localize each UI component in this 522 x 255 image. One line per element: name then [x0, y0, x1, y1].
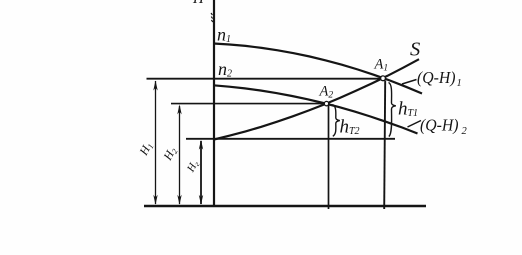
- H2 up arrow: [177, 104, 181, 114]
- brace hT2: [333, 105, 340, 137]
- axis tick specks: [211, 13, 213, 22]
- H1 up arrow: [153, 81, 157, 91]
- axis H (ordinate): [213, 0, 215, 207]
- svg-text:(Q-H): (Q-H): [420, 116, 459, 135]
- extension line H1 level (through A1): [147, 78, 382, 80]
- leader to (Q-H)1: [402, 80, 417, 85]
- brace hT1: [389, 83, 396, 137]
- pump curve n2 / (Q-H)2: [214, 85, 418, 133]
- dimension line H1: [155, 81, 157, 204]
- system curve S: [214, 59, 419, 139]
- arrowheads (dimension arrows): [153, 81, 203, 205]
- point A1: [381, 76, 386, 81]
- leader to (Q-H)2: [408, 121, 422, 128]
- dropline from A1: [384, 81, 385, 210]
- dimension line H2: [179, 106, 181, 204]
- svg-text:S: S: [410, 38, 420, 60]
- dimension line Hr: [200, 141, 202, 204]
- dropline from A2: [328, 106, 330, 210]
- pump curve n1 / (Q-H)1: [214, 44, 423, 94]
- svg-text:1: 1: [457, 78, 462, 89]
- svg-text:2: 2: [462, 126, 468, 137]
- svg-text:H: H: [192, 0, 205, 7]
- Hr down arrow: [199, 195, 203, 205]
- H2 down arrow: [177, 195, 181, 205]
- point A2: [324, 101, 328, 105]
- extension line H2 level (through A2): [171, 103, 325, 105]
- Hr up arrow: [199, 140, 203, 150]
- abscissa baseline: [144, 205, 426, 207]
- H1 down arrow: [153, 195, 157, 205]
- static head line Hr level: [186, 138, 395, 140]
- svg-text:(Q-H): (Q-H): [417, 68, 456, 87]
